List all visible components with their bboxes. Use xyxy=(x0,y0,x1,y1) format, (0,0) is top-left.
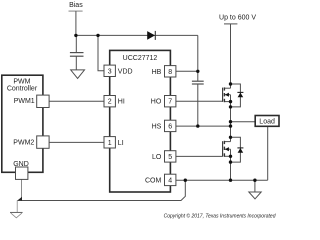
svg-text:GND: GND xyxy=(13,161,29,168)
svg-text:Copyright © 2017, Texas Instru: Copyright © 2017, Texas Instruments Inco… xyxy=(164,213,276,220)
svg-text:VDD: VDD xyxy=(118,68,133,75)
svg-text:PWM2: PWM2 xyxy=(13,139,34,146)
svg-text:HB: HB xyxy=(152,69,162,76)
svg-text:3: 3 xyxy=(108,68,112,75)
svg-text:6: 6 xyxy=(168,123,172,130)
svg-text:Load: Load xyxy=(259,118,275,125)
svg-text:Controller: Controller xyxy=(7,85,38,92)
svg-text:COM: COM xyxy=(145,177,162,184)
svg-text:UCC27712: UCC27712 xyxy=(123,55,158,62)
svg-text:1: 1 xyxy=(108,140,112,147)
svg-text:7: 7 xyxy=(168,99,172,106)
svg-text:LO: LO xyxy=(152,154,162,161)
svg-text:LI: LI xyxy=(118,140,124,147)
svg-text:4: 4 xyxy=(168,177,172,184)
svg-text:HO: HO xyxy=(151,99,162,106)
svg-text:Up to 600 V: Up to 600 V xyxy=(219,15,256,22)
svg-text:HS: HS xyxy=(152,123,162,130)
svg-text:HI: HI xyxy=(118,99,125,106)
svg-text:8: 8 xyxy=(168,69,172,76)
svg-text:Bias: Bias xyxy=(69,2,83,9)
svg-text:2: 2 xyxy=(108,99,112,106)
svg-text:5: 5 xyxy=(168,154,172,161)
svg-text:PWM1: PWM1 xyxy=(14,98,35,105)
